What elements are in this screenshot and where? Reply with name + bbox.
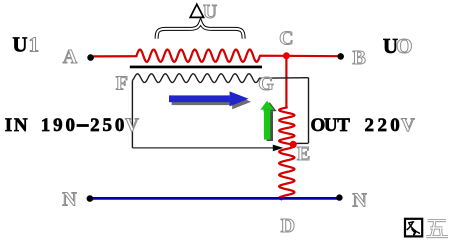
- blue arrow: [169, 91, 249, 106]
- green arrow shadow: [263, 102, 277, 141]
- wiper arrowhead at E: [273, 145, 284, 152]
- core bar: [130, 66, 262, 69]
- caption char TU (solid): [405, 219, 422, 237]
- green arrow: [260, 101, 274, 140]
- svg-text:N: N: [352, 190, 367, 212]
- terminal dot N left: [87, 195, 94, 202]
- svg-text:U: U: [12, 32, 27, 56]
- svg-text:2: 2: [365, 115, 375, 136]
- terminal dot B: [337, 53, 344, 60]
- svg-text:2: 2: [90, 115, 100, 136]
- svg-text:I: I: [5, 115, 12, 136]
- neutral wire N-N: [91, 197, 338, 200]
- svg-text:0: 0: [115, 115, 125, 136]
- svg-text:5: 5: [103, 115, 113, 136]
- svg-text:D: D: [281, 215, 295, 237]
- terminal dot N right: [336, 194, 342, 200]
- svg-text:1: 1: [41, 115, 51, 136]
- feedback box bottom edge: [132, 147, 274, 149]
- svg-text:1: 1: [28, 32, 39, 56]
- svg-text:9: 9: [53, 115, 63, 136]
- feedback box right edge: [308, 78, 310, 143]
- delta-U label: [190, 4, 203, 17]
- svg-text:0: 0: [65, 115, 75, 136]
- svg-text:E: E: [297, 143, 310, 165]
- svg-text:U: U: [324, 115, 338, 136]
- svg-text:T: T: [337, 115, 350, 136]
- svg-text:A: A: [63, 46, 78, 68]
- svg-text:U: U: [203, 2, 217, 23]
- svg-text:V: V: [401, 115, 415, 136]
- svg-text:N: N: [62, 189, 77, 211]
- feedback box left edge: [131, 81, 133, 148]
- junction dot C: [283, 52, 290, 59]
- svg-text:N: N: [14, 115, 28, 136]
- brace over winding: [157, 22, 244, 38]
- wire A to B with main winding: [94, 50, 341, 62]
- junction dot E: [290, 141, 297, 148]
- caption char WU (outline): [426, 221, 448, 237]
- svg-text:C: C: [279, 28, 293, 50]
- control winding F-G: [132, 74, 308, 83]
- svg-text:V: V: [125, 115, 139, 136]
- terminal dot A: [87, 54, 94, 61]
- wire E to box: [293, 142, 308, 144]
- svg-text:0: 0: [390, 115, 400, 136]
- wire C vertical + regulating winding C-D: [279, 56, 294, 199]
- svg-text:O: O: [396, 34, 412, 58]
- svg-text:G: G: [258, 73, 274, 95]
- svg-text:2: 2: [377, 115, 387, 136]
- svg-text:B: B: [353, 47, 366, 69]
- blue arrow shadow: [172, 94, 252, 109]
- svg-text:F: F: [116, 73, 128, 95]
